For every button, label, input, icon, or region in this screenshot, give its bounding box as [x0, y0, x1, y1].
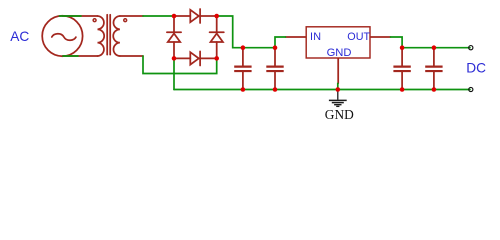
svg-text:OUT: OUT [347, 31, 370, 43]
svg-text:GND: GND [325, 107, 354, 122]
svg-text:DC: DC [466, 60, 486, 75]
svg-text:IN: IN [310, 31, 321, 43]
svg-text:AC: AC [10, 29, 29, 44]
svg-text:GND: GND [327, 47, 352, 59]
